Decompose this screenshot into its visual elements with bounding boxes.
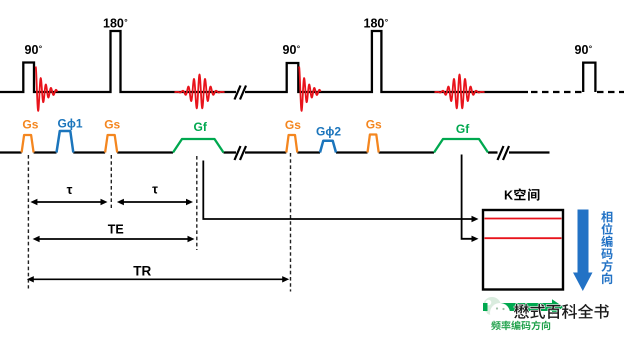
- svg-text:Gs: Gs: [285, 118, 301, 132]
- svg-text:τ: τ: [67, 182, 73, 197]
- svg-text:Gs: Gs: [104, 118, 120, 132]
- svg-text:Gs: Gs: [22, 118, 38, 132]
- svg-text:Gf: Gf: [456, 122, 470, 136]
- svg-text:TR: TR: [133, 264, 151, 279]
- svg-text:TE: TE: [108, 223, 124, 237]
- svg-text:Gϕ2: Gϕ2: [316, 125, 341, 139]
- svg-text:Gs: Gs: [366, 118, 382, 132]
- svg-text:Gϕ1: Gϕ1: [58, 117, 83, 131]
- svg-text:K: K: [504, 189, 513, 203]
- svg-text:Gf: Gf: [194, 120, 208, 134]
- svg-text:τ: τ: [152, 182, 158, 197]
